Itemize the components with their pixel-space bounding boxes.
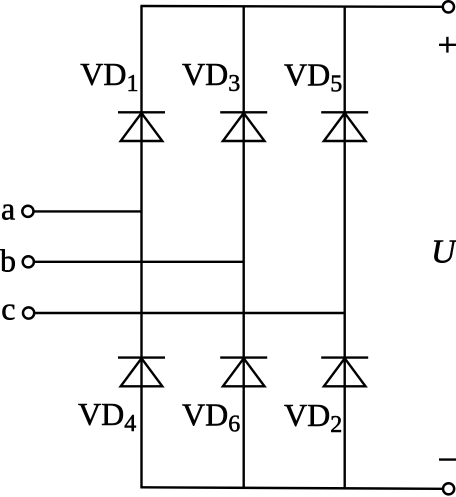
svg-text:VD4: VD4 (78, 396, 136, 437)
svg-text:VD3: VD3 (182, 56, 240, 97)
svg-text:VD5: VD5 (284, 57, 342, 98)
diode VD6 (220, 358, 267, 387)
plus sign (439, 37, 456, 53)
svg-text:VD6: VD6 (182, 397, 240, 438)
svg-text:VD1: VD1 (80, 56, 138, 97)
wire leg 1 (phase a branch) (140, 6, 142, 488)
wire top positive rail (140, 5, 442, 8)
diode VD2 (321, 358, 368, 387)
terminal - (negative output) (443, 483, 454, 494)
diode VD3 (220, 112, 267, 141)
diode VD5 (321, 112, 368, 141)
svg-text:VD2: VD2 (284, 397, 342, 438)
wire phase c (35, 312, 345, 314)
wire leg 3 (phase c branch) (344, 7, 346, 489)
svg-text:c: c (1, 291, 15, 327)
minus sign (439, 458, 456, 460)
terminal a (22, 206, 33, 217)
wire phase a (34, 210, 142, 212)
terminal c (23, 307, 34, 318)
wire bottom negative rail (140, 487, 442, 489)
wire phase b (34, 261, 244, 263)
svg-text:U: U (431, 234, 456, 271)
svg-text:a: a (1, 191, 15, 227)
diode VD1 (118, 112, 165, 141)
terminal + (positive output) (443, 1, 454, 12)
diode VD4 (118, 358, 165, 387)
wire leg 2 (phase b branch) (242, 6, 244, 488)
terminal b (23, 256, 34, 267)
svg-text:b: b (0, 243, 16, 279)
